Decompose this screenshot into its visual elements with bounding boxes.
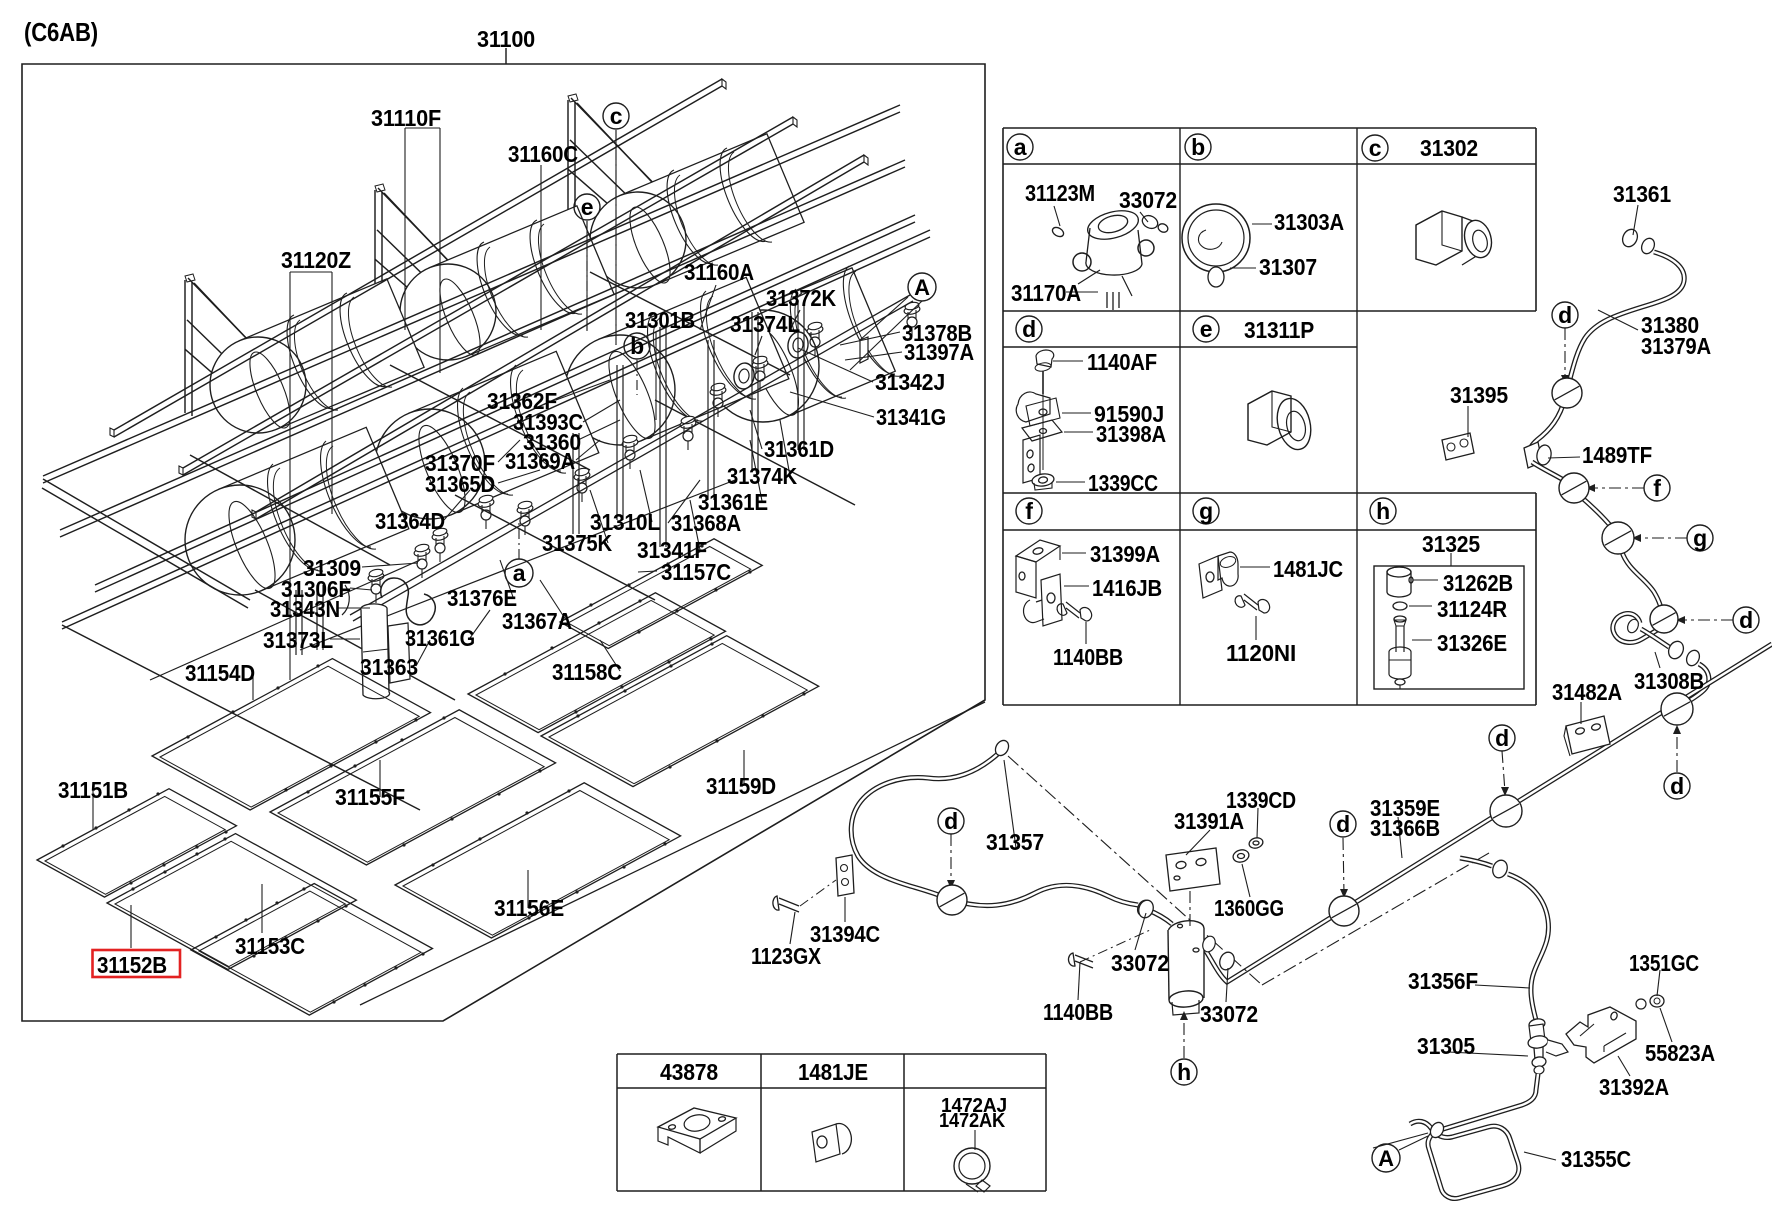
frame cross member 2 — [390, 365, 590, 470]
cell d: bolt/bracket stack — [1016, 350, 1062, 490]
valve 31305 — [1527, 1018, 1568, 1075]
fittings 31308B — [1666, 639, 1702, 668]
cell c: coupling 31302 — [1416, 211, 1495, 265]
svg-text:31160C: 31160C — [508, 141, 578, 167]
frame cross member 3 — [590, 272, 790, 375]
svg-text:31361G: 31361G — [405, 625, 475, 651]
svg-text:h: h — [1177, 1059, 1191, 1085]
frame cross member 6 — [655, 400, 855, 505]
front side rail — [62, 230, 930, 622]
middle rail — [95, 215, 915, 585]
LPG tank rear row 3 — [590, 134, 804, 288]
svg-text:d: d — [1495, 725, 1509, 751]
cell f leaders — [1062, 552, 1086, 554]
svg-text:31325: 31325 — [1422, 531, 1480, 557]
svg-text:d: d — [1022, 316, 1036, 342]
svg-text:31374L: 31374L — [730, 311, 800, 337]
svg-text:1140BB: 1140BB — [1053, 644, 1123, 670]
nut 1351GC — [1636, 995, 1664, 1009]
rear rail lower flange — [60, 160, 905, 530]
svg-text:1339CC: 1339CC — [1088, 470, 1158, 496]
overhead beam 2 — [183, 117, 793, 468]
bracket 31392A — [1566, 1007, 1636, 1063]
cell f: brackets — [1016, 540, 1092, 626]
svg-text:31361D: 31361D — [764, 436, 834, 462]
cell h leaders — [1413, 579, 1438, 581]
svg-text:31379A: 31379A — [1641, 333, 1711, 359]
main drawing border box 31100 — [22, 64, 985, 1021]
floor panel 31154D — [152, 659, 431, 810]
svg-text:A: A — [914, 275, 930, 300]
fuel filter 31391A assembly — [1167, 919, 1205, 1015]
bolt 1123GX — [773, 896, 799, 912]
floor panel 31157C — [560, 539, 762, 649]
pipe section to f junction — [1532, 462, 1570, 484]
frame front cross edge — [62, 625, 420, 810]
43878 drawing — [658, 1108, 736, 1153]
fuel manifold rails — [350, 295, 910, 615]
cell b: ring 31303A/31307 — [1182, 204, 1250, 287]
svg-text:31170A: 31170A — [1011, 280, 1081, 306]
floor panel 31159D — [541, 636, 819, 787]
svg-text:31158C: 31158C — [552, 659, 622, 685]
svg-text:31124R: 31124R — [1437, 596, 1507, 622]
floor panel 31151B — [37, 789, 237, 897]
svg-text:1140AF: 1140AF — [1087, 349, 1157, 375]
svg-text:c: c — [610, 103, 623, 129]
svg-text:31311P: 31311P — [1244, 317, 1314, 343]
bolt 1140BB right — [1068, 953, 1093, 968]
pipe junction circle at 1344,911 — [1329, 896, 1359, 926]
svg-text:31373L: 31373L — [263, 627, 333, 653]
pipe below 31308B to junction — [1679, 664, 1709, 708]
svg-text:31365D: 31365D — [425, 471, 495, 497]
svg-text:b: b — [630, 333, 644, 359]
circled reference letters — [603, 103, 629, 129]
svg-text:1489TF: 1489TF — [1582, 442, 1652, 468]
leader arrowheads — [1561, 375, 1569, 384]
svg-text:31160A: 31160A — [684, 259, 754, 285]
svg-text:e: e — [1200, 316, 1213, 342]
fitting on 31357 top — [993, 738, 1011, 758]
svg-text:31308B: 31308B — [1634, 668, 1704, 694]
svg-text:31155F: 31155F — [335, 784, 405, 810]
svg-text:A: A — [1378, 1146, 1394, 1171]
svg-text:1416JB: 1416JB — [1092, 575, 1162, 601]
svg-text:31368A: 31368A — [671, 510, 741, 536]
svg-text:a: a — [513, 560, 526, 586]
svg-text:1351GC: 1351GC — [1629, 950, 1699, 976]
pipe from loop to 31308B fittings — [1641, 629, 1669, 647]
1481JE drawing — [812, 1124, 851, 1162]
svg-text:33072: 33072 — [1111, 950, 1169, 976]
bracket 31482A — [1566, 716, 1610, 754]
long pipe 31359E/31366B — [1204, 644, 1772, 982]
bottom parts table — [617, 1053, 1046, 1055]
tank stand A-frame 2 — [374, 190, 376, 323]
svg-text:31123M: 31123M — [1025, 180, 1095, 206]
fitting near A circle — [1428, 1120, 1446, 1140]
svg-text:c: c — [1369, 135, 1382, 161]
svg-text:31262B: 31262B — [1443, 570, 1513, 596]
canister 31363 — [361, 604, 410, 699]
bracket 31394C — [836, 855, 854, 896]
ring grommet 31374K — [732, 362, 755, 391]
nuts 1339CD / 1360GG — [1248, 836, 1264, 849]
svg-text:31366B: 31366B — [1370, 815, 1440, 841]
fitting on 31357 right — [1135, 898, 1153, 918]
svg-text:31361: 31361 — [1613, 181, 1671, 207]
ring grommet 31374L — [786, 331, 809, 360]
leader dashes right side — [1564, 328, 1566, 380]
svg-text:31363: 31363 — [360, 654, 418, 680]
svg-text:31301B: 31301B — [625, 307, 695, 333]
svg-text:31110F: 31110F — [371, 105, 441, 131]
pipe hairpin loop — [1613, 613, 1659, 642]
frame left cross edge — [43, 479, 250, 600]
svg-text:1481JE: 1481JE — [798, 1059, 868, 1085]
vertical fuel pipes — [572, 433, 574, 534]
svg-text:b: b — [1191, 134, 1205, 160]
svg-text:1123GX: 1123GX — [751, 943, 821, 969]
svg-text:31375K: 31375K — [542, 530, 612, 556]
parts table right — [1003, 127, 1536, 129]
svg-text:e: e — [581, 194, 594, 220]
LPG tank rear row 1 — [210, 279, 424, 433]
dash leader filter to 31356F area — [1262, 853, 1489, 985]
label leader lines right — [1633, 205, 1638, 235]
tank valves — [806, 324, 823, 335]
svg-text:31341G: 31341G — [876, 404, 946, 430]
LPG tank front row 3 — [565, 277, 789, 445]
svg-text:31342J: 31342J — [875, 369, 945, 395]
svg-text:1360GG: 1360GG — [1214, 895, 1284, 921]
svg-text:31151B: 31151B — [58, 777, 128, 803]
svg-text:1481JC: 1481JC — [1273, 556, 1343, 582]
svg-text:31397A: 31397A — [904, 339, 974, 365]
svg-text:31343N: 31343N — [270, 596, 340, 622]
pipe 31380/31379A upper section — [1567, 252, 1684, 390]
frame cross member 4 — [255, 590, 455, 700]
svg-text:31157C: 31157C — [661, 559, 731, 585]
rear side rail — [43, 105, 900, 476]
svg-text:31307: 31307 — [1259, 254, 1317, 280]
bracket 31397A small — [860, 337, 868, 363]
pipe junction circle at 1618,538 — [1602, 522, 1634, 554]
svg-text:31153C: 31153C — [235, 933, 305, 959]
pipe junction circle at 1664,619 — [1650, 605, 1678, 633]
svg-text:31482A: 31482A — [1552, 679, 1622, 705]
pipe junction circle at 1567,393 — [1552, 378, 1582, 408]
svg-text:g: g — [1693, 525, 1707, 551]
fitting 31361 — [1620, 227, 1657, 256]
small pipes near canister — [342, 585, 349, 615]
cell a: multivalve 31170A — [1051, 206, 1169, 310]
svg-text:d: d — [1558, 302, 1572, 328]
svg-text:31120Z: 31120Z — [281, 247, 351, 273]
svg-text:31152B: 31152B — [97, 952, 167, 978]
cell d leaders — [1053, 360, 1083, 362]
tank stand A-frame 3 — [567, 100, 569, 233]
svg-text:31398A: 31398A — [1096, 421, 1166, 447]
svg-text:31302: 31302 — [1420, 135, 1478, 161]
floor panel 31152B — [107, 834, 356, 970]
svg-text:31395: 31395 — [1450, 382, 1508, 408]
fittings 33072 — [1136, 898, 1236, 972]
svg-text:33072: 33072 — [1119, 187, 1177, 213]
pipe junction circle at 952,900 — [937, 885, 967, 915]
svg-text:43878: 43878 — [660, 1059, 718, 1085]
connector pipe to 31356F — [1460, 858, 1492, 866]
svg-text:31156E: 31156E — [494, 895, 564, 921]
svg-text:d: d — [1670, 773, 1684, 799]
svg-text:31356F: 31356F — [1408, 968, 1478, 994]
pipe junction circle at 1574,488 — [1559, 473, 1589, 503]
pipe junction circle at 1677,709 — [1661, 693, 1693, 725]
LPG tank rear row 2 — [400, 206, 614, 360]
svg-text:31399A: 31399A — [1090, 541, 1160, 567]
svg-text:1472AK: 1472AK — [939, 1110, 1006, 1132]
svg-text:31303A: 31303A — [1274, 209, 1344, 235]
svg-text:31369A: 31369A — [505, 448, 575, 474]
cell g: clamp 1481JC — [1199, 552, 1270, 613]
red highlight box around 31152B — [93, 950, 181, 977]
svg-text:h: h — [1376, 498, 1390, 524]
overhead beam 1 — [114, 79, 722, 430]
label 31100 tick — [505, 48, 507, 64]
svg-text:1120NI: 1120NI — [1226, 640, 1296, 666]
svg-text:31355C: 31355C — [1561, 1146, 1631, 1172]
fitting 31356F top — [1490, 858, 1509, 880]
svg-text:31367A: 31367A — [502, 608, 572, 634]
floor panel 31158C — [468, 593, 726, 733]
1472AJ clamp drawing — [954, 1130, 990, 1192]
clamp 1489TF — [1524, 442, 1542, 468]
bracket 31391A — [1166, 848, 1220, 891]
LPG tank front row 2 — [375, 351, 599, 519]
svg-text:33072: 33072 — [1200, 1001, 1258, 1027]
overhead beam 3 — [256, 155, 864, 512]
svg-text:31357: 31357 — [986, 829, 1044, 855]
cell e: nut 31311P — [1248, 391, 1316, 453]
hose 31361G loop — [381, 578, 436, 625]
pipe section g to d — [1622, 552, 1662, 616]
svg-text:55823A: 55823A — [1645, 1040, 1715, 1066]
svg-text:31372K: 31372K — [766, 285, 836, 311]
svg-text:(C6AB): (C6AB) — [24, 17, 98, 47]
fitting in loop — [1626, 618, 1641, 635]
pipe 31380 mid section — [1529, 398, 1565, 458]
frame lower front edge line — [360, 702, 985, 1005]
pipe 31355C loop — [1410, 1074, 1538, 1199]
floor panel 31155F — [270, 710, 556, 865]
pipe 31357 — [851, 752, 1138, 906]
tank stand A-frame 1 — [184, 280, 186, 413]
svg-text:a: a — [1014, 134, 1027, 160]
svg-text:f: f — [1025, 498, 1033, 524]
svg-text:31392A: 31392A — [1599, 1074, 1669, 1100]
svg-text:31159D: 31159D — [706, 773, 776, 799]
floor panel 31156E — [395, 783, 681, 938]
svg-text:31154D: 31154D — [185, 660, 255, 686]
bracket 31395 — [1442, 433, 1474, 460]
svg-text:31100: 31100 — [477, 26, 535, 52]
LPG tank front row 4 (31374L) — [707, 266, 900, 422]
cell h: inner box 31325 — [1374, 566, 1524, 689]
cell a leaders — [1054, 206, 1060, 226]
svg-text:d: d — [1336, 811, 1350, 837]
svg-text:d: d — [944, 808, 958, 834]
LPG tank front row 1 — [185, 427, 409, 595]
svg-text:31326E: 31326E — [1437, 630, 1507, 656]
svg-text:f: f — [1653, 475, 1661, 501]
svg-text:31374K: 31374K — [727, 463, 797, 489]
dash leader from 31357 to filter — [1008, 756, 1262, 985]
pipe section f to g — [1580, 496, 1614, 530]
svg-text:d: d — [1739, 607, 1753, 633]
svg-text:31364D: 31364D — [375, 508, 445, 534]
dashed leaders from letter circles — [615, 130, 617, 345]
frame cross member 5 — [455, 495, 655, 600]
hose 31356F — [1508, 874, 1549, 1020]
cell g leaders — [1240, 566, 1270, 568]
floor panel 31153C — [191, 884, 433, 1016]
pipe junction circle at 1506,811 — [1490, 795, 1522, 827]
svg-text:g: g — [1199, 498, 1213, 524]
dash leader bolt 1123GX to bracket — [800, 880, 836, 906]
svg-text:31305: 31305 — [1417, 1033, 1475, 1059]
svg-text:1140BB: 1140BB — [1043, 999, 1113, 1025]
leader lines — [404, 128, 406, 330]
frame cross member 1 — [190, 455, 390, 565]
svg-text:31391A: 31391A — [1174, 808, 1244, 834]
pipe from filter to 33072 fitting — [1148, 910, 1172, 924]
